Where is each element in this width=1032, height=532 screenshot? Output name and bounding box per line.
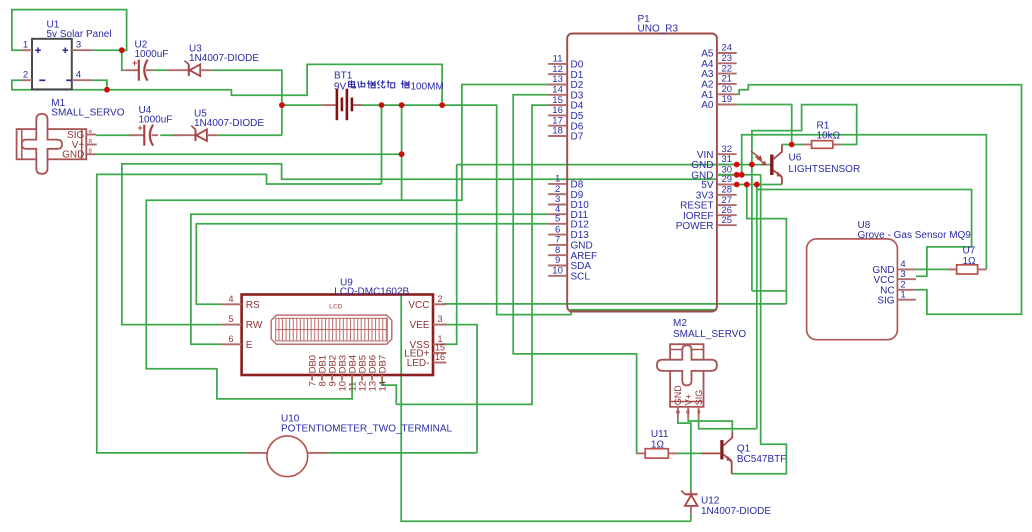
svg-text:3: 3 (437, 314, 442, 324)
svg-text:5: 5 (555, 214, 560, 225)
wire solar pin2 down (12, 80, 107, 90)
svg-text:w: w (89, 129, 93, 135)
svg-text:A2: A2 (701, 80, 714, 91)
junction 5V dot3 (754, 182, 760, 188)
P1 pin 10 SCL (548, 275, 567, 277)
svg-text:POWER: POWER (676, 221, 714, 232)
U1 pin 3 (72, 49, 93, 51)
P1 pin 2 D9 (548, 193, 567, 195)
junction M1 GND junction (399, 151, 405, 157)
svg-text:GND: GND (62, 150, 84, 161)
wire solar pin3 to node (92, 49, 122, 51)
svg-text:3: 3 (900, 269, 905, 280)
wire potentiometer right to VEE (328, 452, 478, 454)
phototransistor U6 (751, 145, 782, 185)
diode U3 (167, 61, 212, 76)
U1 pin 4 (72, 79, 93, 81)
P1 pin 9 SDA (548, 265, 567, 267)
P1 pin 21 A2 (717, 83, 737, 85)
U9 pin 11 DB4 (351, 375, 353, 381)
U9 pin 2 VCC (433, 303, 446, 305)
svg-text:21: 21 (722, 74, 733, 85)
P1 pin 6 D13 (548, 234, 567, 236)
U9 pin 4 RS (221, 303, 242, 305)
svg-text:RW: RW (246, 320, 263, 331)
P1 pin 19 A0 (717, 104, 737, 106)
svg-text:R: R (686, 410, 692, 414)
P1 pin 28 3V3 (717, 194, 737, 196)
svg-text:16: 16 (435, 352, 445, 362)
wire 5V drop to M2 SIG (756, 185, 758, 429)
wire M2 SIG elbow (699, 419, 757, 429)
svg-text:SMALL_SERVO: SMALL_SERVO (673, 329, 746, 340)
wire LCD VSS up (442, 165, 457, 345)
wire A0 down to R1 node (737, 105, 792, 145)
svg-text:LED-: LED- (407, 358, 430, 369)
potentiometer U10 (245, 436, 327, 477)
wire M1 GND row (96, 153, 401, 155)
wire U8 GND to U7 (916, 268, 948, 270)
svg-text:4: 4 (76, 70, 81, 81)
wire M2 V+ to Q1 collector (688, 419, 732, 433)
svg-text:R: R (89, 139, 93, 145)
M1 pin GND (86, 153, 96, 155)
LCD display glass (271, 315, 392, 344)
U9 pin 1 VSS (433, 343, 446, 345)
wire LCD crosser to U12 (401, 295, 691, 522)
svg-text:1Ω: 1Ω (651, 440, 665, 451)
svg-text:SCL: SCL (571, 271, 591, 282)
svg-text:VEE: VEE (409, 320, 429, 331)
P1 pin 11 D0 (548, 63, 567, 65)
svg-text:VCC: VCC (873, 275, 894, 286)
svg-text:BT1: BT1 (334, 71, 353, 82)
servo M2 (657, 344, 717, 407)
svg-text:1N4007-DIODE: 1N4007-DIODE (194, 118, 264, 129)
U9 pin 6 E (221, 343, 242, 345)
wire box elbow (752, 290, 787, 292)
P1 pin 17 D6 (548, 125, 567, 127)
diode U5 (173, 126, 218, 141)
wire LCD VCC row (442, 303, 786, 305)
P1 pin 27 RESET (717, 204, 737, 206)
servo M1 (17, 114, 87, 174)
P1 pin 3 D10 (548, 204, 567, 206)
wire LCD VEE down (442, 325, 477, 453)
M1 pin SIG (86, 134, 96, 136)
U9 pin 15 LED+ (433, 352, 446, 354)
Arduino UNO P1 body (567, 34, 717, 312)
P1 pin 1 D8 (548, 183, 567, 185)
svg-text:UNO_R3: UNO_R3 (638, 23, 679, 34)
svg-text:19: 19 (722, 94, 733, 105)
P1 pin 20 A1 (717, 93, 737, 95)
P1 pin 13 D2 (548, 84, 567, 86)
svg-text:3: 3 (76, 40, 81, 51)
U8 pin 4 GND (897, 268, 916, 270)
U9 pin 9 DB2 (331, 375, 333, 381)
wire overlap GND30 pin (717, 174, 737, 176)
wire node to U2 plus (122, 50, 124, 70)
svg-text:18: 18 (552, 126, 563, 137)
svg-text:1N4007-DIODE: 1N4007-DIODE (189, 53, 259, 64)
resistor U7 1ohm (948, 265, 987, 274)
svg-text:9V: 9V (334, 81, 347, 92)
transistor Q1 (702, 433, 733, 474)
junction solar minus node (104, 87, 110, 93)
resistor U11 1ohm (637, 449, 678, 458)
wire U11 to Q1 base (678, 452, 702, 454)
wire LCD E to D11 (191, 214, 548, 344)
wire U5 out to battery-plus node (218, 134, 282, 136)
capacitor U2 (124, 58, 152, 81)
U8 pin 3 VCC (897, 278, 916, 280)
P1 pin 31 GND (717, 164, 737, 166)
wire LCD RS to D12 (196, 224, 548, 304)
P1 pin 29 5V (717, 184, 737, 186)
gas sensor U8 body (807, 239, 898, 340)
svg-text:5v Solar Panel: 5v Solar Panel (47, 29, 112, 40)
M2 pin V+ (687, 407, 689, 419)
junction battery plus node (279, 102, 285, 108)
U1 pin 2 (22, 79, 33, 81)
svg-text:LIGHTSENSOR: LIGHTSENSOR (789, 164, 861, 175)
wire GND31 drop (751, 165, 753, 291)
P1 pin 18 D7 (548, 135, 567, 137)
svg-text:6: 6 (228, 334, 233, 344)
junction 5V dot2 (744, 182, 750, 188)
P1 pin 8 AREF (548, 254, 567, 256)
wire M2 GND to U12 (678, 419, 691, 490)
junction GND31 pin dot (734, 162, 740, 168)
P1 pin 4 D11 (548, 213, 567, 215)
P1 pin 32 VIN (717, 153, 737, 155)
junction solar node A (119, 47, 125, 53)
wire U2 to U3 (152, 69, 166, 71)
svg-text:1: 1 (900, 289, 905, 300)
svg-text:2: 2 (437, 294, 442, 304)
wire neg vert through M1 GND (401, 105, 403, 200)
P1 pin 7 GND (548, 244, 567, 246)
P1 pin 30 GND (717, 174, 737, 176)
wire 5V row to U6 emitter (737, 184, 782, 186)
U9 pin 10 DB3 (341, 375, 343, 381)
P1 pin 12 D1 (548, 73, 567, 75)
wire DB7 jog (382, 381, 396, 405)
U1 pin 1 (22, 49, 33, 51)
wire U3 out down to battery-plus node (211, 70, 282, 135)
M1 pin V+ (86, 144, 97, 146)
junction neg node 2 (399, 102, 405, 108)
wire battery-neg row to under UNO (352, 105, 717, 315)
svg-text:V+: V+ (683, 394, 693, 405)
P1 pin 23 A4 (717, 62, 737, 64)
wire GND30 row (717, 174, 761, 176)
wire GND to potentiometer (97, 174, 382, 453)
wire R1 right loop to 5V drop (752, 105, 857, 165)
wire LCD RW long wire (122, 164, 717, 325)
U9 pin 5 RW (221, 324, 242, 326)
P1 pin 25 POWER (717, 224, 737, 226)
U9 pin 12 DB5 (361, 375, 363, 381)
solar panel U1 (32, 39, 72, 90)
wire battery-plus node to BT1 (282, 104, 322, 106)
wire battery-neg drop (381, 105, 383, 184)
svg-text:25: 25 (722, 215, 733, 226)
svg-text:A0: A0 (701, 100, 714, 111)
wire A1 to U8 NC (737, 85, 1022, 315)
svg-text:14: 14 (378, 381, 389, 392)
U9 pin 7 DB0 (311, 375, 313, 381)
svg-text:100MM: 100MM (411, 81, 444, 92)
svg-text:LCD-DMC1602B: LCD-DMC1602B (334, 286, 409, 297)
svg-text:1000uF: 1000uF (135, 49, 169, 60)
junction R1-A0 node (789, 142, 795, 148)
svg-text:10kΩ: 10kΩ (817, 131, 841, 142)
wire solar pin1 to top loop (12, 10, 127, 51)
wire 5V drop box (747, 185, 787, 304)
M2 pin SIG (698, 407, 700, 419)
svg-text:RS: RS (246, 300, 260, 311)
junction neg node 3 (439, 102, 445, 108)
U9 pin 3 VEE (433, 324, 446, 326)
wire U12 bottom stub (690, 514, 692, 521)
svg-text:POTENTIOMETER_TWO_TERMINAL: POTENTIOMETER_TWO_TERMINAL (281, 424, 453, 435)
U9 pin 13 DB6 (371, 375, 373, 381)
P1 pin 24 A5 (717, 52, 737, 54)
svg-text:DB7: DB7 (378, 355, 389, 373)
svg-text:SMALL_SERVO: SMALL_SERVO (51, 108, 124, 119)
svg-text:D7: D7 (571, 132, 584, 143)
junction GND30 U7 dot (739, 172, 745, 178)
wire GND30 down to Q1 emitter (732, 175, 787, 474)
U9 pin 14 DB7 (381, 375, 383, 381)
svg-text:U6: U6 (789, 152, 802, 163)
junction neg node 1 (379, 102, 385, 108)
svg-text:1: 1 (23, 40, 28, 51)
svg-text:w: w (697, 410, 703, 414)
svg-text:5: 5 (228, 314, 233, 324)
P1 pin 14 D3 (548, 94, 567, 96)
wire D3 to U11 (513, 95, 637, 454)
M2 pin GND (677, 407, 679, 419)
LCD U9 body (242, 295, 433, 376)
svg-text:Q1: Q1 (737, 443, 751, 454)
P1 pin 26 IOREF (717, 214, 737, 216)
svg-text:1Ω: 1Ω (963, 256, 977, 267)
U8 pin 2 NC (897, 289, 916, 291)
wire U4 to U5 (160, 134, 181, 136)
svg-text:B: B (676, 410, 682, 414)
svg-text:15: 15 (435, 343, 445, 353)
svg-text:BC547BTF: BC547BTF (737, 454, 786, 465)
svg-text:GND: GND (673, 385, 683, 406)
wire overlap GND31 pin (717, 164, 737, 166)
svg-text:SIG: SIG (694, 390, 704, 406)
P1 pin 16 D5 (548, 114, 567, 116)
U9 pin 16 LED- (433, 362, 446, 364)
wire M1 SIG to U4 (96, 134, 133, 136)
battery BT1 (322, 89, 362, 121)
svg-text:M2: M2 (673, 318, 687, 329)
U9 pin 8 DB1 (321, 375, 323, 381)
U8 pin 1 SIG (897, 299, 916, 301)
wire 5V feed to U8 VCC (757, 190, 972, 277)
BT1 value label 9V dianchi tongxiankou tong100MM (334, 80, 444, 92)
svg-text:VCC: VCC (408, 300, 429, 311)
svg-text:U12: U12 (701, 495, 720, 506)
wire solar pin4 down (92, 80, 107, 90)
junction GND31 drop dot (749, 162, 755, 168)
wire D2 to LCD DB4 (146, 85, 548, 399)
svg-text:E: E (246, 340, 253, 351)
svg-text:1N4007-DIODE: 1N4007-DIODE (701, 506, 771, 517)
wire GND30 up to U7 (742, 135, 987, 270)
P1 pin 15 D4 (548, 104, 567, 106)
svg-text:4: 4 (228, 294, 233, 304)
resistor R1 10k (803, 141, 841, 149)
svg-text:2: 2 (23, 70, 28, 81)
wire VSS row through UNO to GND31 (457, 164, 771, 166)
diode U12 (681, 490, 697, 514)
wire solar minus over battery to neg node (107, 64, 442, 105)
P1 pin 5 D12 (548, 223, 567, 225)
capacitor U4 (130, 123, 158, 146)
svg-text:10: 10 (552, 266, 563, 277)
svg-text:Grove - Gas Sensor MQ9: Grove - Gas Sensor MQ9 (858, 230, 972, 241)
wire R1 left node (782, 144, 803, 146)
junction GND30 pin dot (734, 172, 740, 178)
svg-text:D12: D12 (571, 219, 590, 230)
svg-text:LCD: LCD (329, 304, 343, 311)
svg-text:1000uF: 1000uF (139, 115, 173, 126)
wire D4 to DB7 row (396, 105, 548, 404)
svg-text:SIG: SIG (877, 295, 894, 306)
junction 5V pin dot (734, 182, 740, 188)
P1 pin 22 A3 (717, 73, 737, 75)
